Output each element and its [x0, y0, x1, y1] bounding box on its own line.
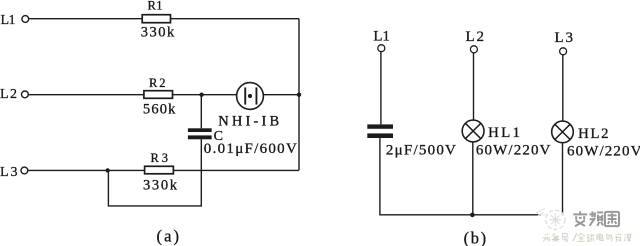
svg-text:(b): (b): [464, 228, 487, 246]
svg-text:60W/220V: 60W/220V: [476, 142, 551, 158]
svg-text:R3: R3: [151, 151, 169, 165]
svg-text:L2: L2: [0, 87, 17, 102]
svg-text:L1: L1: [373, 29, 390, 45]
svg-text:(a): (a): [157, 226, 180, 245]
svg-text:0.01μF/600V: 0.01μF/600V: [204, 141, 297, 157]
svg-text:560k: 560k: [143, 101, 176, 117]
svg-text:HL1: HL1: [488, 125, 520, 141]
svg-text:NHI-IB: NHI-IB: [218, 114, 279, 130]
svg-text:60W/220V: 60W/220V: [567, 143, 640, 159]
svg-text:L2: L2: [466, 29, 485, 45]
svg-text:330k: 330k: [143, 177, 178, 193]
svg-text:L3: L3: [0, 165, 18, 180]
svg-text:L1: L1: [1, 13, 16, 28]
svg-text:330k: 330k: [141, 25, 175, 41]
svg-text:R1: R1: [148, 0, 163, 13]
svg-text:R2: R2: [149, 76, 166, 90]
svg-text:2μF/500V: 2μF/500V: [386, 143, 456, 159]
svg-text:L3: L3: [555, 30, 574, 46]
svg-text:HL2: HL2: [578, 126, 609, 142]
